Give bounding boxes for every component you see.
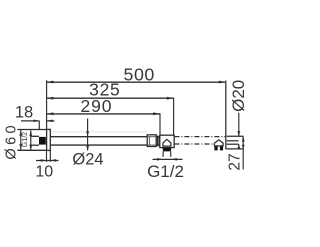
dim 18 right outside arrow <box>47 120 53 123</box>
dim 18 line left part <box>21 120 39 122</box>
thread hole bottom line <box>31 144 39 146</box>
svg-text:Ø60: Ø60 <box>4 122 20 160</box>
dim G1/2 right outside arrow <box>171 158 177 161</box>
outlet right edge below <box>170 151 172 157</box>
dim 10 right outside arrow <box>50 159 56 162</box>
dim Ø24 leader <box>87 119 89 151</box>
dim 10 line <box>36 160 59 162</box>
tube top edge <box>50 136 160 138</box>
tube bottom edge <box>50 144 160 146</box>
faint artifact line across tube area <box>48 131 148 133</box>
dim G1/2 wall double arrow <box>30 130 32 150</box>
dim 10 left outside arrow <box>41 159 47 162</box>
Ø24 upper arrow (down onto tube top) <box>86 131 89 136</box>
dim G1/2 left outside arrow <box>157 158 163 161</box>
dim 325 line <box>47 97 174 99</box>
elbow rectangle <box>160 135 174 147</box>
dim 290 line <box>47 113 160 115</box>
elbow thread black trapezoid <box>163 148 172 152</box>
nut inner line <box>148 137 150 145</box>
end outlet right foot <box>220 147 223 151</box>
extension line main left (x=46.6) <box>46 80 48 129</box>
svg-text:290: 290 <box>80 96 112 116</box>
nut rectangle <box>147 135 156 147</box>
dim 500 left arrow <box>47 81 54 84</box>
dim 290 left arrow <box>47 112 54 115</box>
dim Ø20 leader upper <box>238 113 240 137</box>
right mid extension line y=140.8 <box>227 140 239 142</box>
dim 500 right arrow <box>219 81 226 84</box>
interface line 1 <box>157 136 159 147</box>
right lower extension line y=144.2 <box>227 143 239 145</box>
wall plate bottom extension line <box>17 149 46 151</box>
svg-text:500: 500 <box>123 64 154 84</box>
elbow seat house pentagon <box>163 139 171 146</box>
dim 18 line right part <box>47 120 55 122</box>
extension line 18 left (x=39.3) <box>38 121 40 130</box>
wall plate top extension line <box>17 129 46 131</box>
tube lines visible inside nut <box>148 136 156 138</box>
end outlet house pentagon <box>214 140 223 146</box>
dim G1/2 bottom line <box>153 158 183 160</box>
svg-text:Ø24: Ø24 <box>72 150 103 168</box>
dim 325 right arrow <box>167 97 174 100</box>
dim 27 down arrow <box>242 145 245 149</box>
extension line 325 right (x=173.6) <box>173 98 175 136</box>
right bottom extension line y=148.9 <box>226 148 244 150</box>
dim Ø20 lower arrow <box>238 144 240 149</box>
thread hole top line <box>31 135 39 137</box>
outlet left edge below <box>162 151 164 157</box>
extension line 290 right (x=160) <box>159 113 161 135</box>
hidden tube dash-dot bottom <box>174 143 214 145</box>
dim 325 left arrow <box>47 97 54 100</box>
svg-text:G1/2: G1/2 <box>147 162 184 181</box>
extension line 500 right / arm end face (x=225.7) <box>225 81 227 149</box>
wall plate rectangle <box>47 129 51 150</box>
interface line 2 <box>158 136 160 147</box>
dim 27 line <box>242 136 244 169</box>
hidden tube dash-dot top <box>174 136 225 138</box>
dim Ø60 double arrow <box>20 130 22 150</box>
dim 500 line <box>47 81 226 83</box>
svg-text:18: 18 <box>15 103 33 121</box>
dim 27 up arrow <box>242 136 245 141</box>
dim 10 extension right <box>49 150 51 161</box>
svg-text:27: 27 <box>227 153 244 170</box>
seal black square <box>39 137 46 145</box>
dim 10 extension left <box>46 150 48 161</box>
right top extension line y=136.3 <box>227 135 244 137</box>
svg-text:Ø20: Ø20 <box>229 80 247 112</box>
svg-text:G1/2: G1/2 <box>20 132 29 148</box>
end outlet left foot <box>214 147 217 151</box>
svg-text:10: 10 <box>35 164 53 181</box>
dim 18 left outside arrow <box>34 120 40 123</box>
Ø24 lower arrow (down above text) <box>86 146 89 151</box>
dim 290 right arrow <box>153 112 160 115</box>
